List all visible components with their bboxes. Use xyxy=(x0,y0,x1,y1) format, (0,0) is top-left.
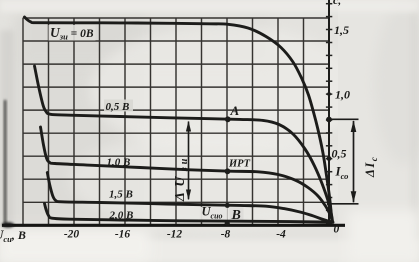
svg-text:2,0 В: 2,0 В xyxy=(109,210,134,222)
curve 0.5V xyxy=(35,66,333,222)
delta Uzi arrowhead down xyxy=(186,190,191,201)
delta Uzi arrowhead up xyxy=(186,121,191,132)
x-axis xyxy=(2,224,345,227)
y-axis xyxy=(328,0,330,225)
svg-text:0,5: 0,5 xyxy=(332,147,347,161)
curve 2.0V xyxy=(45,204,334,223)
label halo U_sio xyxy=(200,207,228,222)
label halo B xyxy=(230,207,244,221)
label halo 0,5V xyxy=(104,100,133,112)
marker point IRT xyxy=(225,168,231,174)
svg-text:B: B xyxy=(231,208,241,223)
svg-text:1,5: 1,5 xyxy=(334,23,349,37)
paper: bottom-left light corner xyxy=(0,228,150,262)
x-axis left end blob xyxy=(2,222,14,227)
svg-text:0: 0 xyxy=(334,224,340,236)
delta Ic arrowhead down xyxy=(351,191,357,203)
paper: lighter right margin xyxy=(338,0,419,262)
svg-text:-4: -4 xyxy=(276,229,286,241)
y-axis ticks xyxy=(326,4,332,224)
svg-text:Uзи = 0В: Uзи = 0В xyxy=(50,25,94,42)
svg-text:-8: -8 xyxy=(221,229,231,241)
svg-text:-12: -12 xyxy=(167,229,183,241)
svg-text:1,5 В: 1,5 В xyxy=(109,189,133,201)
label halo U_zi=0V xyxy=(49,25,96,41)
y-axis tick dots xyxy=(326,92,332,206)
paper: lighter bottom strip xyxy=(0,240,419,262)
svg-text:0,5 В: 0,5 В xyxy=(106,101,130,113)
svg-text:ИРТ: ИРТ xyxy=(228,159,251,170)
curve U_zi=0 xyxy=(25,17,333,222)
paper: subtle grey wash top rows xyxy=(20,14,270,64)
svg-text:1,0: 1,0 xyxy=(335,88,350,102)
delta Ic arrow line xyxy=(353,121,355,202)
svg-text:с,: с, xyxy=(333,0,341,7)
marker on axis below B xyxy=(225,221,230,226)
curve 1.5V xyxy=(47,173,332,223)
paper: subtle grey wash left part of plot xyxy=(14,14,144,229)
paper: grey left margin column xyxy=(0,30,14,230)
curve 1.0V xyxy=(41,127,333,222)
dim line at B level xyxy=(329,203,359,205)
dim line at A level xyxy=(329,118,359,120)
svg-text:A: A xyxy=(230,103,240,118)
paper: bottom-right light corner xyxy=(348,210,419,262)
marker on 1.5V curve xyxy=(225,203,230,208)
svg-text:1,0 В: 1,0 В xyxy=(107,157,131,169)
delta Uzi arrow line xyxy=(188,122,190,200)
marker point A xyxy=(225,116,231,122)
paper: right margin grey mottle xyxy=(374,5,419,165)
paper: light interior lower xyxy=(70,130,360,230)
scan edge dark bar xyxy=(4,100,7,225)
delta Ic arrowhead up xyxy=(351,120,357,132)
paper: top band light xyxy=(0,0,419,12)
svg-text:-20: -20 xyxy=(64,229,80,241)
svg-text:-16: -16 xyxy=(115,229,131,241)
paper: light interior centre xyxy=(90,25,360,155)
paper: right edge grey strip xyxy=(410,0,419,262)
